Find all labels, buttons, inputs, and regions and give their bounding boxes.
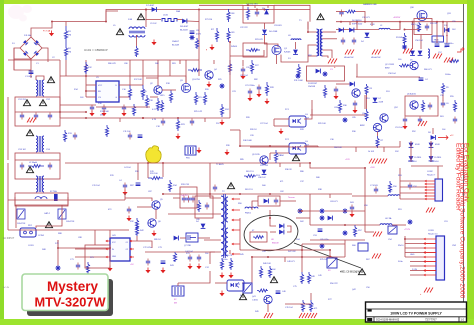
capacitor CX13: [318, 229, 323, 232]
resistor R113: [135, 46, 138, 57]
ground hatch 7b05: [444, 58, 453, 63]
pin U401 1: [106, 240, 110, 242]
wire stby1: [124, 194, 126, 200]
ground row118: [175, 134, 180, 140]
diode D306: [418, 51, 423, 56]
transformer T201 sec upper: [226, 197, 228, 222]
ground hatch box: [418, 121, 427, 126]
wire bc vert1: [251, 257, 253, 292]
pin CON3-4: [424, 252, 436, 254]
page border frame left: [0, 0, 4, 325]
resistor R408: [300, 272, 303, 284]
op-amp U401 regulator: [110, 238, 130, 261]
wire u401 bus: [57, 240, 59, 248]
wire out rail 194: [310, 193, 352, 195]
transformer T101 secondary winding: [321, 29, 323, 56]
diode D307: [373, 98, 378, 103]
wire T201 p3: [204, 239, 221, 241]
svg-text:STPR1020: STPR1020: [352, 24, 363, 26]
svg-text:R31 100: R31 100: [150, 173, 158, 175]
wire resistor top: [65, 22, 67, 27]
choke L104 right: [42, 176, 44, 192]
ground U101: [89, 111, 94, 117]
junction j26: [57, 247, 59, 249]
wire pwm left vert: [198, 10, 200, 61]
junction k4: [340, 21, 342, 23]
svg-text:CON2: CON2: [427, 171, 433, 173]
junction j9: [142, 117, 144, 119]
resistor R203: [197, 200, 200, 212]
svg-text:C1 68u: C1 68u: [25, 76, 33, 78]
bridge rectifier BD101: [20, 37, 42, 59]
svg-text:450V: 450V: [196, 34, 202, 36]
wire stby2: [137, 163, 139, 180]
zener ZDX2: [295, 73, 300, 78]
resistor R134: [168, 180, 171, 192]
svg-text:T2 EE25: T2 EE25: [216, 164, 225, 166]
wire stub s1: [254, 5, 256, 8]
ground C114: [101, 111, 106, 117]
snubber box secondary: [307, 66, 345, 81]
ground gx5: [349, 212, 354, 218]
svg-text:IN4148: IN4148: [272, 243, 279, 245]
wire aux bus: [230, 50, 264, 56]
capacitor C401: [76, 263, 80, 270]
svg-text:F1 T4A: F1 T4A: [43, 30, 51, 33]
wire L106 to D108: [177, 19, 182, 21]
wire bc feed: [239, 218, 241, 250]
pin CON3-1: [424, 238, 436, 240]
title block top rule: [366, 308, 466, 310]
wire fb chain2: [280, 200, 296, 202]
ground C121: [256, 92, 261, 98]
wire con3 feed2: [405, 247, 424, 249]
wire opto2 in bot: [270, 152, 289, 154]
wire q202 down: [155, 209, 157, 219]
pin CON3 extra2: [424, 252, 436, 254]
transistor Q305: [410, 101, 419, 109]
svg-text:2W: 2W: [100, 115, 103, 117]
ground X1: [196, 148, 201, 154]
resistor R205: [274, 150, 277, 163]
wire bridge bottom: [30, 59, 32, 78]
pin T201 s1: [232, 198, 240, 200]
capacitor C310: [435, 44, 440, 47]
wire opto2 right: [317, 146, 319, 147]
svg-text:R59 2W: R59 2W: [430, 23, 437, 25]
svg-text:1000u: 1000u: [445, 74, 451, 76]
warning triangle xcap1: [23, 100, 30, 106]
wire opto1 in top: [274, 118, 289, 120]
junction k14: [109, 247, 111, 249]
wire D108 out: [187, 20, 199, 23]
svg-text:U101 = C8980CP: U101 = C8980CP: [84, 48, 108, 52]
wire varistor bus2: [36, 205, 62, 228]
wire bc top link: [302, 243, 345, 245]
varistor RV1 box: [17, 209, 25, 219]
diode D308: [431, 135, 436, 140]
resistor R121: [194, 92, 197, 105]
box comparator: [405, 96, 438, 116]
svg-text:R44 4.7K: R44 4.7K: [224, 255, 233, 257]
capacitor C303: [352, 38, 356, 45]
pin CON2-3: [425, 186, 435, 188]
annotation leader line: [294, 243, 361, 268]
wire sec rail mid2: [311, 109, 313, 115]
diode D303: [349, 28, 354, 33]
wire Q101 source: [276, 55, 278, 64]
diode D304: [365, 33, 370, 38]
wire left col stub: [13, 59, 15, 70]
wire sec top vert5: [420, 35, 422, 50]
wire x2 net: [177, 283, 179, 286]
resistor R402: [135, 225, 138, 236]
resistor R404: [220, 258, 223, 270]
resistor R412: [309, 300, 312, 312]
wire pwm vert b: [142, 60, 144, 85]
pin CON3-7: [424, 265, 436, 267]
svg-text:C7 450V: C7 450V: [370, 185, 378, 187]
junction j10: [177, 117, 179, 119]
svg-text:L42 3A: L42 3A: [385, 217, 392, 220]
wire right vert rail: [364, 168, 366, 232]
resistor R108: [227, 9, 230, 22]
capacitor C306: [441, 101, 445, 108]
ground C405: [196, 264, 201, 270]
capacitor C406: [276, 291, 281, 294]
svg-text:ZD2 5V6: ZD2 5V6: [260, 165, 269, 167]
capacitor C201: [123, 183, 127, 190]
wire stub s3: [179, 60, 181, 64]
ground gx2: [352, 108, 357, 114]
wire sec rail 147: [318, 146, 400, 148]
resistor R304: [399, 64, 409, 67]
junction k9: [269, 193, 271, 195]
pin T201 s2: [232, 209, 240, 211]
junction j21: [251, 256, 253, 258]
ground hatch q304a: [369, 159, 378, 164]
svg-text:D0 4148: D0 4148: [269, 31, 278, 33]
ground hatch br: [372, 254, 381, 259]
resistor R411: [301, 300, 304, 312]
svg-text:C4 104: C4 104: [124, 167, 131, 169]
svg-text:1nF 2kV: 1nF 2kV: [181, 195, 188, 197]
svg-text:R17 10K: R17 10K: [134, 79, 142, 81]
svg-text:R80 47K: R80 47K: [108, 63, 116, 65]
ground input node: [49, 31, 54, 37]
transistor Q204: [260, 156, 269, 164]
yellow stamp mark: [146, 146, 161, 163]
wire aux supply: [242, 60, 244, 66]
ground R107: [209, 45, 214, 51]
svg-text:AC INPUT: AC INPUT: [3, 237, 15, 240]
wire con3 feed4: [410, 265, 424, 267]
resistor R101 1M: [64, 26, 67, 43]
diode D312: [409, 156, 414, 161]
svg-text:g: g: [206, 49, 207, 51]
mosfet Q203 switch: [186, 233, 198, 242]
pin CON2-5: [425, 192, 435, 194]
capacitor C307: [374, 187, 378, 194]
svg-text:CON3: CON3: [428, 230, 434, 232]
wire sec rail 147b: [399, 141, 401, 147]
svg-text:R33 C33: R33 C33: [181, 184, 190, 186]
wire opto4 in: [215, 282, 227, 284]
diode D110: [262, 30, 267, 35]
wire fb vert 270: [269, 153, 271, 160]
diode D204 in circle: [279, 224, 284, 229]
diode D313: [429, 143, 434, 148]
capacitor C405: [197, 255, 201, 262]
junction k7: [162, 193, 164, 195]
svg-text:SANREX 06B: SANREX 06B: [363, 3, 377, 6]
wire u401 right1: [134, 241, 152, 248]
regulator box in circle: [250, 232, 267, 242]
warning triangle xcap2: [39, 100, 46, 106]
capacitor CX1: [20, 113, 24, 120]
transistor Q201: [152, 201, 161, 209]
wire bridge right down: [42, 48, 48, 62]
capacitor C209: [213, 185, 217, 192]
inductor L301: [379, 28, 390, 29]
capacitor C205: [186, 196, 190, 203]
junction j14: [412, 21, 414, 23]
junction j22: [301, 256, 303, 258]
wire con3 feed9: [410, 270, 424, 272]
resistor R407: [268, 266, 271, 278]
junction k6: [442, 21, 444, 23]
capacitor C134: [138, 135, 143, 138]
transformer T201 primary: [221, 196, 224, 256]
wire right h rail2: [365, 231, 374, 233]
choke L102 winding left: [36, 80, 38, 96]
diode D314: [429, 156, 434, 161]
wire opto1 vert: [311, 100, 313, 109]
wire pwm vert c: [157, 60, 159, 78]
wire con3 feed3: [405, 256, 424, 258]
svg-text:GND: GND: [112, 256, 117, 258]
diode ZD3: [262, 170, 267, 175]
pin CON2-6: [425, 195, 435, 197]
resistor R132: [105, 125, 108, 137]
wire mid rail D: [163, 193, 310, 195]
capacitor C119: [190, 119, 194, 126]
junction j7: [85, 90, 87, 92]
wire con2 top: [437, 166, 439, 179]
choke L107 winding bottom: [129, 35, 145, 37]
diode D109 snub: [264, 10, 269, 15]
capacitor C208: [274, 198, 278, 205]
resistor RX7: [353, 225, 356, 237]
wire rail 225b: [345, 224, 380, 226]
wire mid rail A: [65, 162, 310, 164]
svg-text:+12V: +12V: [345, 159, 350, 161]
wire opto2 out: [304, 145, 318, 147]
component small box X2: [388, 226, 397, 234]
wire T101 pin3: [308, 55, 317, 57]
optocoupler U202: [289, 116, 306, 127]
wire con3 bus: [404, 236, 406, 257]
wire sec top vert3: [412, 22, 414, 49]
junction j6: [85, 75, 87, 77]
sheet right border line: [463, 4, 465, 319]
ground r128: [264, 99, 269, 105]
capacitor C305: [428, 103, 432, 110]
ground hatch con3: [424, 288, 433, 293]
wire con2 bus: [399, 168, 401, 199]
wire bus 248: [58, 247, 110, 249]
wire AC line to fuse: [31, 11, 118, 37]
choke L107 winding top: [129, 27, 145, 29]
choke L102 core: [39, 80, 41, 96]
model label box: [22, 274, 108, 311]
section box bottom: [85, 245, 110, 268]
svg-text:F2 T4A: F2 T4A: [50, 190, 57, 193]
zener ZD2: [219, 83, 224, 88]
resistor RX bleed: [28, 165, 44, 168]
transistor Q401: [264, 295, 273, 303]
pin U401 5: [130, 248, 134, 250]
wire u401 left2: [75, 256, 106, 258]
ground hatch bc3: [308, 313, 317, 318]
label box 7B05: [432, 36, 444, 42]
wire r301 area: [336, 11, 345, 13]
ground Q202: [151, 231, 156, 237]
wire T101 sec pin3: [323, 50, 333, 58]
wire q203 link: [180, 237, 186, 239]
capacitor C114: [102, 105, 106, 112]
svg-text:1M: 1M: [68, 52, 71, 54]
wire T101 sec pin4: [323, 56, 329, 58]
resistor R114: [195, 38, 198, 49]
resistor R125: [228, 60, 231, 75]
wire pwm box edge: [199, 4, 243, 6]
arrow out vcc: [457, 48, 464, 53]
resistor R123: [176, 118, 179, 131]
wire q401 down: [267, 304, 269, 312]
junction k12: [85, 111, 87, 113]
capacitor CX9: [418, 117, 422, 124]
transformer T101 core: [319, 29, 321, 56]
warning triangle opto2: [292, 155, 299, 161]
zener ZD9: [319, 215, 324, 220]
junction j11: [307, 31, 309, 33]
wire right vert: [229, 42, 231, 118]
junction k8: [239, 193, 241, 195]
pin U401 3: [106, 256, 110, 258]
wire bot left rail: [7, 97, 9, 160]
wire u401 top: [136, 236, 138, 241]
resistor R116: [141, 85, 144, 100]
svg-text:P-ON: P-ON: [412, 269, 418, 271]
wire con2 feed3: [400, 192, 425, 194]
junction j27: [364, 167, 366, 169]
wire L301 out: [390, 22, 400, 30]
resistor R301: [345, 10, 356, 13]
wire pwm vert a: [129, 60, 131, 85]
capacitor CX12: [408, 183, 412, 190]
svg-text:C9 102: C9 102: [150, 23, 157, 25]
svg-text:R11 100K: R11 100K: [294, 80, 303, 82]
pin T201 s4: [232, 229, 240, 231]
inductor FB201: [245, 207, 258, 208]
svg-text:C76 104: C76 104: [285, 307, 293, 309]
pin CON3-3: [424, 247, 436, 249]
svg-text:C93 681: C93 681: [274, 25, 282, 27]
wire t101 vert: [307, 22, 309, 29]
wire U101 vert feed: [85, 60, 87, 97]
wire sec rail 29: [336, 29, 379, 31]
capacitor CX3: [48, 113, 52, 120]
svg-text:R29 10K: R29 10K: [318, 123, 326, 125]
warning triangle varistor: [45, 222, 52, 228]
wire snub down: [264, 23, 266, 29]
wire t201 top feed: [209, 163, 211, 194]
ground C135: [247, 96, 252, 102]
diode D113 snub2: [316, 69, 321, 74]
capacitor C131: [73, 133, 77, 140]
wire sec top vert1: [356, 22, 358, 30]
resistor R201: [148, 177, 163, 180]
wire diode col2: [430, 141, 432, 162]
ground mid right: [224, 150, 229, 156]
capacitor CX5: [48, 163, 52, 170]
wire aux diode: [295, 42, 297, 49]
svg-text:L2 30mH: L2 30mH: [29, 162, 38, 164]
title block cell mark 2: [367, 318, 372, 321]
svg-text:Q7 2SK: Q7 2SK: [184, 245, 192, 247]
junction k2: [247, 4, 249, 6]
wire U101 right pin2: [119, 96, 130, 98]
transistor Q104: [205, 71, 214, 79]
svg-text:R25 0.22: R25 0.22: [194, 111, 203, 113]
warning triangle choke3: [26, 167, 33, 173]
pin CON3-8: [424, 270, 436, 272]
wire q net: [162, 89, 176, 91]
svg-text:4.7K: 4.7K: [152, 119, 157, 121]
wire Q103 d: [170, 76, 186, 83]
snubber box: [243, 6, 274, 24]
diode D305: [410, 51, 415, 56]
wire bc vert2: [301, 244, 303, 272]
junction j8: [59, 111, 61, 113]
svg-text:BL4148: BL4148: [172, 45, 180, 47]
wire bus u401 top: [94, 230, 96, 245]
wire U101 left pin3: [86, 96, 96, 98]
ground hatch q301: [403, 49, 412, 54]
svg-text:R54 0: R54 0: [398, 245, 404, 247]
zener ZDX1: [342, 117, 347, 122]
wire out 163 right: [310, 163, 340, 168]
wire mid rail C: [8, 229, 120, 231]
wire stby rail2: [147, 163, 149, 178]
wire stby rail: [162, 163, 164, 177]
wire drop to L106: [146, 10, 161, 20]
snubber box T201: [195, 196, 213, 218]
wire stub s12: [229, 250, 231, 254]
diode D201: [174, 236, 179, 241]
snubber box R126: [243, 43, 267, 57]
svg-text:D7A: D7A: [128, 18, 133, 21]
wire pwm bus bottom: [198, 60, 200, 76]
ground C201: [122, 190, 127, 196]
svg-text:+B125V: +B125V: [393, 17, 401, 19]
ground hatch CON2: [426, 208, 435, 213]
diode D108: [182, 19, 187, 24]
svg-text:+T12V: +T12V: [404, 229, 411, 231]
resistor R115: [128, 85, 131, 100]
wire con2 feed1: [400, 180, 425, 182]
